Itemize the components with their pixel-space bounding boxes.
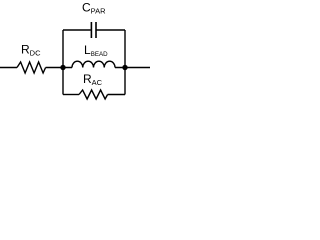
wire left lead xyxy=(0,67,17,69)
svg-text:LBEAD: LBEAD xyxy=(84,43,108,58)
svg-text:RAC: RAC xyxy=(83,72,103,87)
wire bottom branch right xyxy=(108,94,125,96)
resistor R_DC xyxy=(17,62,46,73)
svg-text:CPAR: CPAR xyxy=(82,1,106,16)
svg-text:RDC: RDC xyxy=(21,43,41,58)
wire R_DC to node A xyxy=(46,67,72,69)
node B junction dot xyxy=(122,65,127,70)
wire left vertical branch xyxy=(62,30,64,95)
wire node B to right edge xyxy=(115,67,150,69)
wire bottom branch left xyxy=(63,94,79,96)
resistor R_AC xyxy=(79,90,108,99)
wire top branch left xyxy=(63,29,91,31)
node A junction dot xyxy=(60,65,65,70)
inductor L_BEAD coil xyxy=(72,61,115,67)
capacitor C_PAR plates xyxy=(91,22,96,38)
wire right vertical branch xyxy=(124,30,126,95)
wire top branch right xyxy=(97,29,126,31)
